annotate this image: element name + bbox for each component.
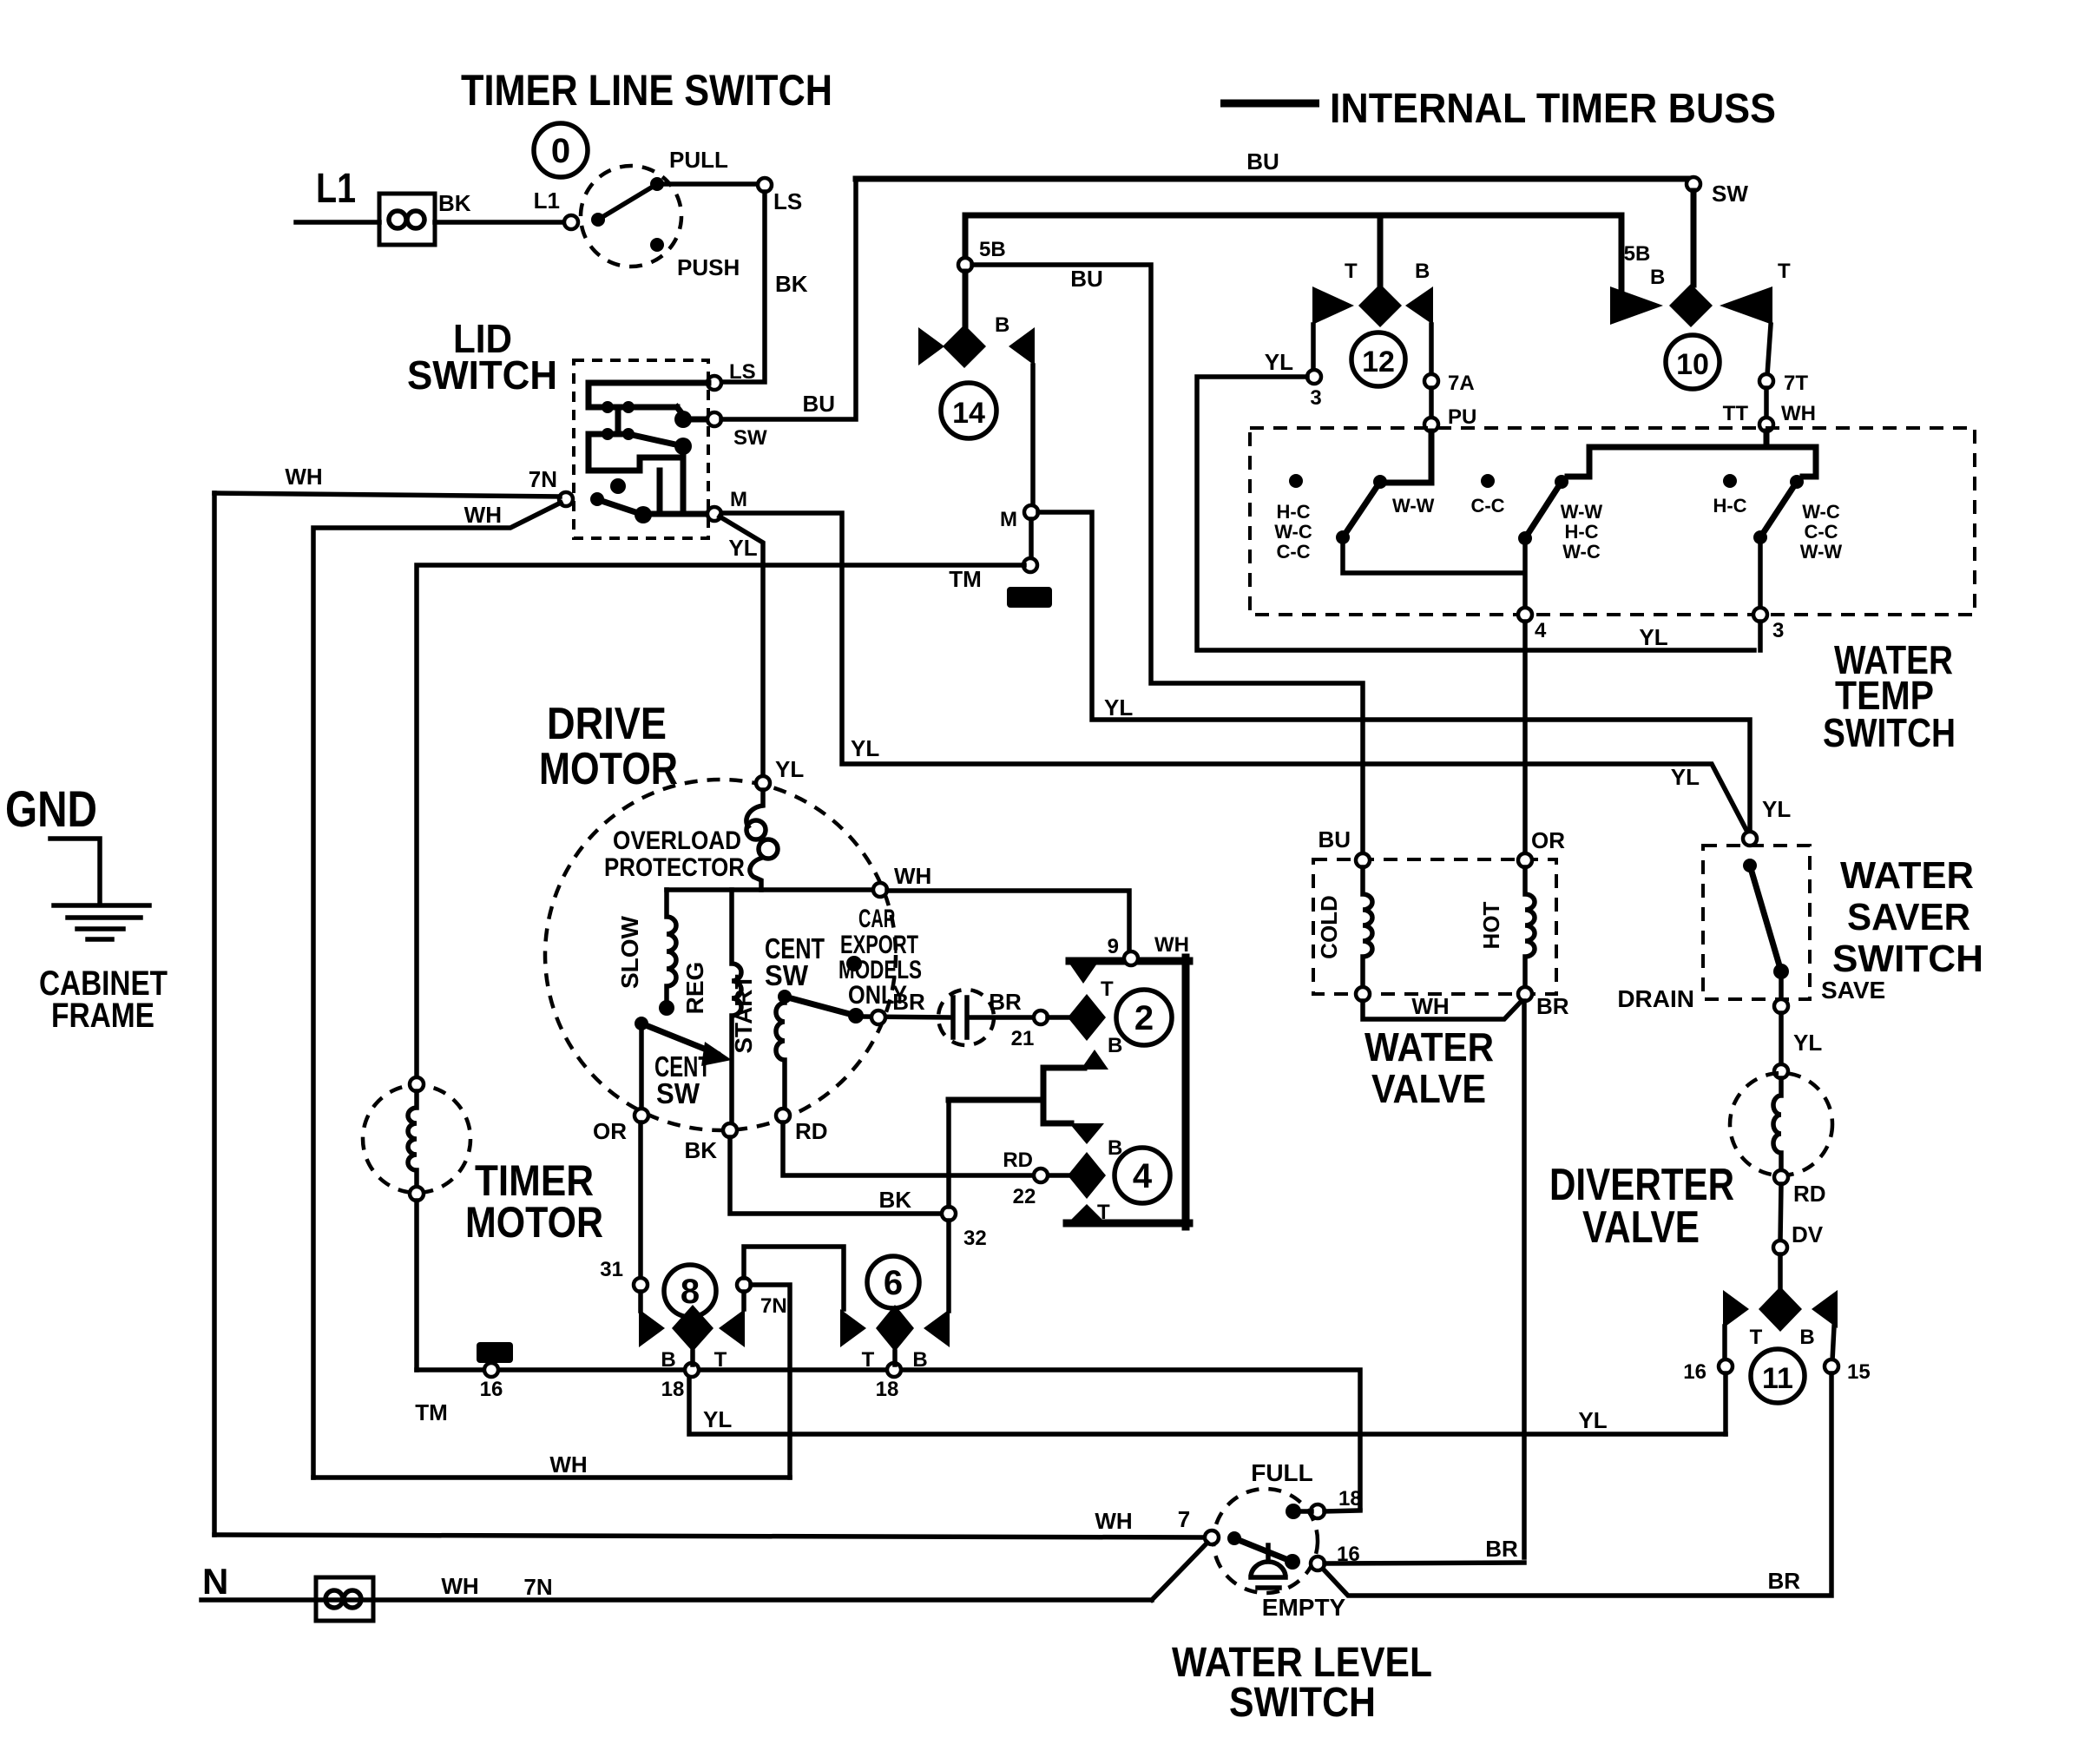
svg-text:YL: YL [703,1406,732,1432]
lid switch wire LS run [589,383,708,407]
svg-text:SW: SW [656,1077,700,1109]
ground bar 3 [77,926,123,931]
svg-text:W-C: W-C [1802,501,1840,523]
overload protector squiggle [746,790,763,826]
cam 12 number circle [1351,332,1405,386]
capacitor wire BR left [863,1017,949,1017]
svg-text:15: 15 [1847,1360,1871,1384]
svg-text:COLD: COLD [1316,895,1342,959]
ground bar 2 [68,915,141,920]
water temp feed right branch [1766,447,1816,477]
node diverter top [1774,1064,1788,1078]
water temp feed bus from TT [1568,431,1766,477]
contact 2/4 block right edge [1182,958,1190,1227]
svg-text:BR: BR [989,989,1022,1015]
wire 32 up to step [946,1100,951,1207]
svg-text:YL: YL [1762,796,1791,822]
cam 10 left triangle [1610,286,1663,325]
cam 12 feed from buss2 [1378,215,1384,286]
cent sw upper pivot dot [778,990,792,1004]
svg-text:H-C: H-C [1276,501,1310,523]
svg-text:SAVE: SAVE [1821,977,1885,1004]
fixed dot left group [1289,474,1303,488]
svg-text:ONLY: ONLY [848,981,907,1010]
wire RD to DV [1780,1184,1781,1241]
svg-text:SW: SW [733,426,767,450]
node 16 empty [1311,1557,1325,1570]
motor internal bus WH [667,887,874,892]
svg-text:BK: BK [878,1187,911,1213]
svg-text:7N: 7N [523,1574,552,1600]
wire WH run to left column [313,1475,790,1480]
wire WH to contact block 9 [887,891,1129,951]
wire 5B down to cam14 [963,272,969,326]
svg-text:BR: BR [1767,1568,1800,1594]
wire cam14 to M node [1030,365,1036,506]
node BR motor boundary [871,1010,885,1024]
wire WH between valve coils [1363,1001,1522,1019]
wire SAVE down to diverter [1779,1013,1784,1065]
wire timer motor to bottom bus [414,1201,419,1370]
SLOW winding [667,890,676,1000]
wire node4 down to water valve OR [1522,622,1528,854]
svg-text:W-W: W-W [1800,541,1843,563]
svg-text:YL: YL [728,535,757,561]
svg-text:21: 21 [1011,1027,1035,1050]
svg-text:DRAIN: DRAIN [1617,985,1694,1012]
wire 7N step to cam6 left [744,1247,844,1309]
lid pole dot row2 [674,438,692,455]
node timer motor bottom [410,1187,424,1201]
svg-text:YL: YL [1104,694,1133,721]
svg-text:C-C: C-C [1276,541,1310,563]
cent sw upper arm [785,997,856,1016]
node 7N cam8 [737,1278,751,1292]
node 22 [1034,1168,1048,1182]
pressure dome symbol [1251,1545,1286,1588]
cam 11 right triangle [1812,1290,1838,1328]
svg-text:LS: LS [729,360,756,384]
cent sw arm end dot [848,1008,864,1024]
node BR water valve [1518,987,1532,1001]
svg-text:FRAME: FRAME [51,997,155,1035]
svg-text:DRIVE: DRIVE [547,699,667,749]
drive motor dashed circle [545,780,896,1130]
lid arm 7N [602,501,643,515]
node 15 [1825,1359,1838,1373]
svg-text:AD: AD [484,1346,506,1362]
wire switch2 pivot down to node 4 [1522,545,1528,609]
cam 2 B triangle [1081,1050,1108,1070]
wire buss2 to 5B node [963,215,969,259]
svg-text:7T: 7T [1784,372,1808,395]
water level switch dashed circle [1213,1489,1318,1593]
cam 8 number circle [664,1265,716,1317]
overload protector circle 1 [746,820,766,839]
terminal LS of lid switch [707,376,721,390]
cam 12 left triangle [1312,286,1354,325]
svg-text:T: T [1345,260,1358,283]
cam 6 right triangle [924,1309,950,1347]
cam 10 right triangle [1720,286,1772,325]
svg-text:WATER: WATER [1365,1024,1494,1070]
svg-text:FULL: FULL [1251,1459,1313,1486]
wire BR from 15 to water level empty [1323,1373,1831,1596]
svg-text:TIMER LINE SWITCH: TIMER LINE SWITCH [461,66,832,115]
wire pole to SW terminal [677,407,708,419]
node diverter bottom [1774,1170,1788,1184]
wire WH left column down [212,493,217,1535]
svg-text:WH: WH [1154,933,1189,957]
capacitor dashed circle [938,990,994,1045]
wire OR down to 31 [638,1122,643,1279]
cam 11 left triangle [1723,1290,1749,1328]
svg-text:T: T [1101,977,1114,1001]
timer line switch cam circle 0 [534,123,588,177]
svg-text:B: B [1108,1034,1122,1057]
svg-text:4: 4 [1133,1157,1153,1195]
timer motor dashed circle [363,1085,470,1193]
node 32 [942,1207,956,1221]
svg-text:WH: WH [1095,1508,1132,1534]
node cold bottom [1356,987,1370,1001]
connector (fuse) box N [316,1577,373,1621]
title: TIMER MOTOR [465,1156,603,1247]
svg-text:TT: TT [1723,402,1749,425]
internal timer buss 2 [965,213,1621,219]
node WH motor [873,883,887,897]
svg-text:WATER: WATER [1840,854,1974,897]
svg-text:YL: YL [1265,349,1293,375]
water valve dashed box [1313,859,1556,994]
svg-text:TM: TM [415,1399,448,1425]
svg-text:B: B [912,1348,927,1372]
cam 6 left triangle [840,1309,866,1347]
svg-text:BU: BU [802,391,835,417]
wire DV to cam 11 [1778,1254,1783,1288]
node BK motor [723,1123,737,1137]
svg-text:SWITCH: SWITCH [1832,938,1983,980]
svg-text:L1: L1 [534,188,560,214]
cam 12 right triangle [1405,286,1433,325]
svg-text:SW: SW [765,959,809,991]
cam 6 diamond [876,1305,914,1352]
switch3 arm [1760,482,1797,537]
label CENT SW (upper) [765,932,825,991]
switch2 arm [1525,482,1562,538]
svg-text:LS: LS [773,188,802,214]
node PU [1424,418,1438,431]
svg-text:T: T [862,1348,875,1372]
wire BU branch from 5B to water valve [972,265,1363,854]
cam 14 diamond [943,325,986,368]
wire fuse to L1 node [435,220,564,225]
svg-text:OR: OR [1531,827,1565,853]
terminal 7N of lid switch [559,492,573,506]
legend: internal timer buss [1220,100,1319,108]
svg-text:YL: YL [1639,624,1667,650]
connector (fuse) box L1 [379,194,435,245]
svg-text:3: 3 [1310,386,1321,410]
wire 21 to diamond2 [1048,1015,1068,1020]
svg-text:T: T [1750,1326,1763,1349]
REG winding [732,890,741,1124]
svg-text:11: 11 [1762,1362,1793,1395]
svg-text:PU: PU [1448,405,1476,429]
wire 7A to PU [1429,388,1434,418]
lid wire to M terminal [643,511,708,517]
wire M terminal to water saver (YL) [721,513,1748,833]
wire 32 branch to step [949,1097,1043,1103]
wire 31 to cam8 [638,1292,643,1311]
wire YL net from 3 to water temp 3 [1197,377,1754,650]
wire full node to bus corner [1325,1511,1360,1511]
svg-text:32: 32 [963,1227,987,1250]
svg-text:WH: WH [441,1573,478,1599]
title: DRIVE MOTOR [539,699,678,794]
timer motor coil [408,1091,417,1188]
wire empty to BR junction [1325,1563,1524,1563]
svg-text:C-C: C-C [1804,521,1838,543]
cam 4 diamond [1068,1152,1106,1199]
svg-text:MOTOR: MOTOR [465,1198,603,1247]
wire WH from 7N to left column [214,493,560,497]
node 21 [1034,1010,1048,1024]
svg-text:T: T [714,1348,727,1372]
cent sw lower pivot dot [635,1017,648,1030]
svg-text:8: 8 [681,1273,700,1311]
svg-text:31: 31 [600,1258,623,1281]
svg-text:T: T [1778,260,1791,283]
overload protector tail [750,858,762,890]
wire N diagonal to 7 [1152,1543,1207,1600]
svg-text:7N: 7N [529,466,557,492]
cam 2 number circle [1116,990,1172,1045]
cam 4 T triangle [1068,1204,1106,1223]
wire switch1 pivot to node4 rail [1343,544,1523,573]
svg-text:SWITCH: SWITCH [407,352,557,398]
switch3 top contact dot [1790,475,1804,489]
svg-text:GND: GND [5,781,97,838]
svg-text:6: 6 [884,1264,903,1302]
svg-text:18: 18 [876,1378,899,1401]
wire 22 to diamond4 [1048,1173,1068,1178]
svg-text:W-W: W-W [1561,501,1603,523]
node 9/WH on block [1124,951,1138,965]
cam 12 diamond [1358,284,1402,327]
svg-text:PROTECTOR: PROTECTOR [604,853,745,882]
lid zigzag loop [589,434,683,471]
wire YL run from bus drop to cam11 [689,1376,1726,1434]
lid switch dashed box [574,360,708,538]
lid wire row1 [589,405,677,411]
svg-text:HOT: HOT [1478,901,1504,949]
svg-text:7N: 7N [760,1294,787,1318]
COLD coil [1363,867,1372,988]
lid wire row2 [589,431,628,438]
cam 14 left triangle [918,327,944,365]
svg-text:0: 0 [551,132,570,170]
svg-text:4: 4 [1535,619,1547,642]
title: WATER LEVEL SWITCH [1172,1640,1432,1726]
wire cam12 right to 7A [1429,325,1434,375]
wire cam12 left to node 3 [1311,325,1316,371]
svg-text:16: 16 [480,1378,503,1401]
node 18 bus (cam8) [685,1363,699,1377]
label CENT SW (lower) [654,1050,711,1109]
switch1 arm [1343,482,1380,537]
node L1 junction [564,215,578,229]
node 31 [634,1278,648,1292]
wire PU into box to switch1 [1386,431,1431,483]
contact 2/4 block bottom edge [1067,1220,1189,1228]
cam 14 right triangle [1009,327,1035,365]
svg-text:YL: YL [851,735,879,761]
svg-text:3: 3 [1772,619,1784,642]
title: WATER TEMP SWITCH [1823,637,1956,755]
water saver pole dot [1743,859,1757,872]
cam 4 B triangle [1069,1123,1104,1144]
svg-text:BU: BU [1318,826,1351,852]
wire YL diagonal from M [720,517,763,776]
label OVERLOAD PROTECTOR [604,826,745,882]
wire WH left column bottom run to water level 7 [214,1535,1206,1537]
svg-text:10: 10 [1676,348,1709,381]
svg-text:SWITCH: SWITCH [1823,710,1956,755]
timer line switch dashed circle [581,166,681,267]
wire M down to TM node [1029,519,1034,559]
full contact dot [1286,1504,1301,1519]
wire 7N branch down to WH run [751,1285,790,1478]
svg-text:MOTOR: MOTOR [539,744,678,794]
svg-text:B: B [1415,260,1430,283]
svg-text:H-C: H-C [1713,495,1746,517]
wire 7T to TT [1764,388,1769,418]
badge 14A [1007,587,1052,608]
node SW [1687,177,1700,191]
svg-text:WH: WH [1781,402,1816,425]
wire BK to node 32 [730,1137,942,1214]
cent sw lower arrowhead [701,1042,732,1066]
overload protector circle 2 [759,839,778,859]
diverter coil [1773,1078,1781,1171]
svg-text:18: 18 [1338,1487,1362,1511]
contact 2/4 block top edge [1069,958,1189,965]
cam 11 number circle [1751,1349,1805,1403]
node 4 [1518,608,1532,622]
step link cam2B to cam4B [1043,1068,1084,1123]
label CABINET FRAME [39,964,168,1035]
buss BU top [856,176,1691,182]
cam 2 T triangle [1068,961,1099,984]
svg-text:WH: WH [464,502,502,528]
wire SW down to cam10 diamond [1691,191,1697,285]
cam 4 number circle [1115,1148,1170,1203]
svg-text:W-W: W-W [1392,495,1435,517]
wire L1 to fuse [296,220,379,225]
svg-text:VALVE: VALVE [1371,1066,1486,1111]
cam 10 diamond [1669,284,1713,327]
svg-text:5B: 5B [979,238,1006,261]
svg-text:BK: BK [438,190,471,216]
wire BU from SW up to buss [721,179,856,419]
wire BK down from LS to lid switch LS [721,192,765,382]
water saver arm [1750,866,1781,971]
lid pole dot 7N [635,506,652,523]
svg-text:M: M [730,488,747,511]
svg-text:RD: RD [1003,1149,1033,1172]
svg-text:YL: YL [1671,764,1700,790]
svg-text:VALVE: VALVE [1582,1202,1700,1253]
capacitor wire BR right [971,1015,1035,1020]
terminal SW [707,412,721,426]
cam 8 right triangle [719,1309,745,1347]
cam 11 diamond [1759,1287,1802,1332]
wire PULL to LS node [657,181,759,187]
svg-text:WH: WH [285,464,322,490]
svg-text:BU: BU [1070,266,1103,292]
svg-text:BK: BK [775,271,808,297]
lid wire pole2 down to M row [681,446,687,513]
cam 10 feed from buss2 [1619,215,1625,290]
wire cam11 right to node 15 [1832,1326,1834,1360]
cam 10 number circle [1666,335,1720,389]
node 7A [1424,374,1438,388]
label CAP EXPORT MODELS ONLY [838,905,922,1010]
node OR water valve [1518,853,1532,867]
wire RD to node 22 [783,1122,1035,1175]
node 5B [958,258,972,272]
svg-text:TM: TM [949,566,982,592]
svg-text:RD: RD [1793,1181,1826,1207]
node TM [1023,558,1037,572]
labels H-C W-C C-C [1274,501,1312,563]
wire BR down from water valve [1522,1001,1527,1557]
ground symbol stub [50,839,100,904]
svg-text:BR: BR [1485,1536,1518,1562]
labels W-W H-C W-C [1561,501,1603,563]
node 16 bus [484,1363,498,1377]
capacitor plates [953,997,967,1037]
svg-text:WH: WH [894,863,931,889]
cam 8 diamond [672,1305,713,1352]
cam 14 number circle [941,383,996,438]
svg-text:22: 22 [1013,1185,1036,1208]
svg-text:REG: REG [681,962,708,1015]
switch3 pivot dot [1753,530,1767,544]
wire TM line to timer motor [417,565,1024,1084]
node DV [1773,1241,1787,1254]
svg-text:START: START [730,974,757,1053]
lid pole dot SW [674,411,692,428]
switch pole dot [591,213,605,227]
svg-text:YL: YL [1578,1407,1607,1433]
labels W-C C-C W-W [1800,501,1843,563]
switch1 pivot dot [1336,530,1350,544]
terminal M [707,507,721,521]
svg-text:BR: BR [1536,993,1569,1019]
wire full dot to node [1300,1509,1312,1514]
water saver save dot [1773,964,1789,979]
water level pole dot [1227,1531,1241,1545]
ground bar 4 [88,937,112,942]
svg-text:PULL: PULL [669,147,728,173]
svg-text:DV: DV [1792,1221,1824,1247]
svg-text:W-C: W-C [1274,521,1312,543]
title: WATER SAVER SWITCH [1832,854,1983,980]
ground bar 1 [54,903,149,908]
svg-text:YL: YL [775,756,804,782]
